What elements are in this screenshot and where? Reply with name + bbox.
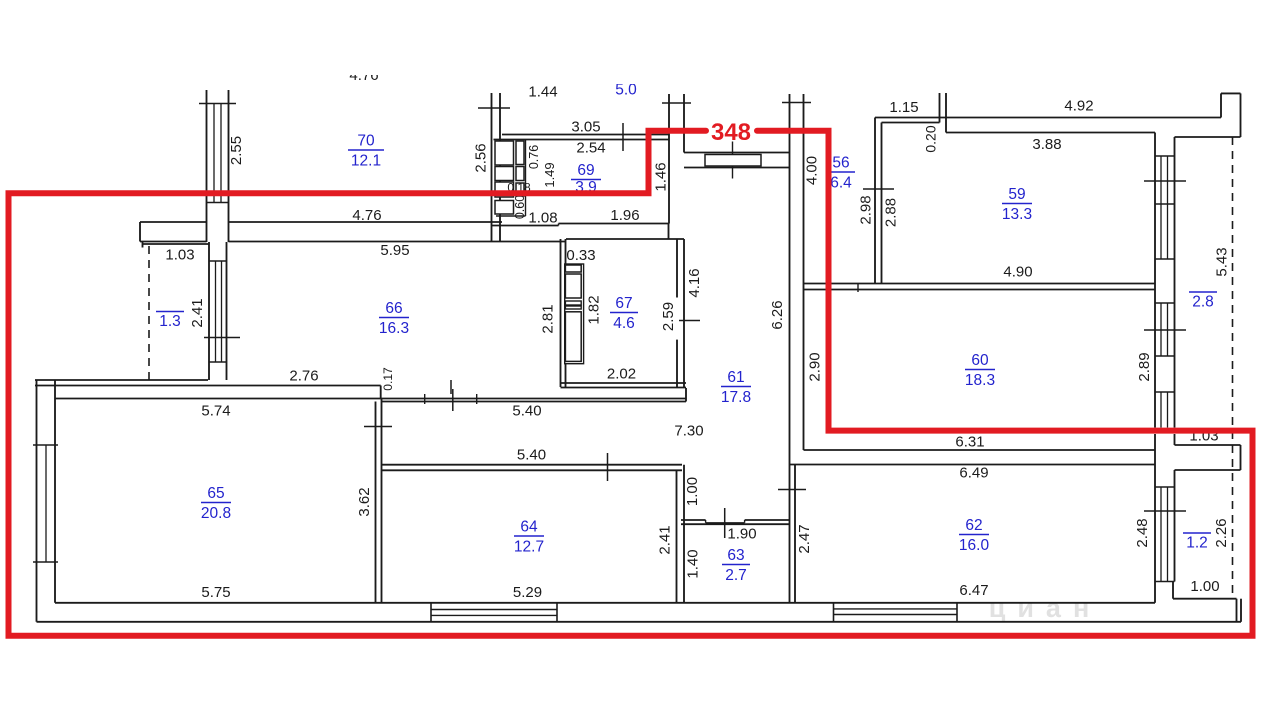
interior bottom line [55, 602, 1155, 604]
window tick bottom [209, 361, 227, 363]
shaft box [495, 141, 514, 165]
1.3 window wall inner [226, 242, 228, 380]
svg-text:3.62: 3.62 [356, 487, 373, 516]
wall 59/60 bottom line [804, 289, 1156, 291]
svg-text:циан: циан [989, 593, 1102, 623]
svg-text:60: 60 [971, 352, 989, 369]
red outline flat 348 [9, 131, 1253, 636]
svg-text:65: 65 [207, 485, 224, 502]
ww inner [1174, 487, 1176, 582]
wall 59/60 top line [804, 283, 1156, 285]
svg-text:2.41: 2.41 [189, 298, 206, 327]
step [558, 224, 560, 226]
pier top [1155, 258, 1175, 260]
svg-text:2.47: 2.47 [796, 524, 813, 553]
window wall inner [1174, 137, 1176, 259]
box edge [956, 603, 958, 622]
bump right [1240, 445, 1242, 470]
door jamb [705, 520, 707, 523]
pane [1167, 303, 1169, 356]
tick [478, 107, 510, 109]
window division tick [1155, 203, 1175, 205]
ww inner [1174, 470, 1176, 487]
ww outer [1154, 392, 1156, 428]
bump top [1175, 444, 1241, 446]
door jamb [744, 520, 746, 523]
wall 66/67 right [565, 239, 567, 387]
svg-text:4.92: 4.92 [1064, 98, 1093, 115]
svg-text:2.90: 2.90 [807, 352, 824, 381]
1.3 bottom wall top edge [35, 379, 208, 381]
right exterior lower outer [1236, 599, 1238, 622]
svg-text:2.56: 2.56 [473, 143, 490, 172]
66 interior bottom [35, 385, 381, 387]
svg-text:5.43: 5.43 [1214, 247, 1231, 276]
svg-text:6.4: 6.4 [830, 175, 852, 192]
tick [424, 394, 426, 404]
corner bump left [1220, 93, 1222, 117]
window pane [45, 445, 47, 562]
window tick [33, 444, 58, 446]
svg-text:1.15: 1.15 [889, 99, 918, 116]
svg-text:2.26: 2.26 [1213, 518, 1230, 547]
window tick [33, 561, 58, 563]
balcony 2.8 top wall [1175, 136, 1241, 138]
62 left inner [794, 465, 796, 604]
box line [834, 614, 958, 616]
svg-text:69: 69 [577, 162, 594, 179]
svg-text:3.88: 3.88 [1032, 136, 1061, 153]
shaft box [565, 265, 581, 272]
svg-text:2.48: 2.48 [1134, 518, 1151, 547]
svg-text:1.00: 1.00 [1190, 578, 1219, 595]
balcony label 2.8 [1189, 291, 1217, 293]
svg-text:2.81: 2.81 [540, 304, 557, 333]
svg-text:56: 56 [832, 155, 849, 172]
balcony label 1.2 [1183, 532, 1211, 534]
shaft box [495, 167, 514, 181]
wall 70/69 right line [499, 93, 501, 241]
svg-text:1.2: 1.2 [1186, 535, 1208, 552]
pier [1172, 582, 1174, 599]
pier left [1154, 356, 1156, 392]
bump bottom [1175, 469, 1241, 471]
hall/63 wall line1 right [745, 519, 790, 521]
svg-text:0.33: 0.33 [566, 247, 595, 264]
svg-text:6.31: 6.31 [955, 434, 984, 451]
svg-text:5.75: 5.75 [201, 584, 230, 601]
svg-text:5.0: 5.0 [615, 82, 637, 99]
balcony 1.2 interior bottom [1173, 598, 1237, 600]
box edge [833, 603, 835, 622]
svg-text:17.8: 17.8 [721, 389, 751, 406]
60 interior bottom [804, 449, 1156, 451]
window pane [221, 261, 223, 362]
small tick [857, 284, 859, 293]
wall 70/69 left line [491, 93, 493, 241]
shaft box [516, 183, 524, 196]
svg-text:348: 348 [711, 119, 751, 146]
tick [1155, 355, 1175, 357]
svg-text:59: 59 [1008, 186, 1025, 203]
1.3 window wall outer [208, 242, 210, 380]
svg-text:70: 70 [357, 133, 375, 150]
crop cover top [0, 0, 1280, 75]
69 top line2 [494, 139, 670, 141]
window pane [215, 261, 217, 362]
shaft box [565, 312, 581, 362]
balcony 1.3 top wall [143, 243, 210, 245]
svg-text:0.20: 0.20 [923, 125, 939, 152]
svg-text:1.82: 1.82 [586, 295, 603, 324]
ww outer [1154, 434, 1156, 487]
svg-text:1.46: 1.46 [653, 162, 670, 191]
door threshold [705, 155, 761, 167]
window wall outer [1154, 133, 1156, 260]
balcony 1.3 dashed boundary [148, 246, 150, 380]
pane [1167, 392, 1169, 428]
svg-text:12.7: 12.7 [514, 539, 544, 556]
wall 56/59 right [881, 123, 883, 284]
tick 2.47 [778, 489, 806, 491]
svg-text:7.30: 7.30 [674, 423, 703, 440]
ww outer [1154, 487, 1156, 582]
wall: top-left exterior window pier outer [206, 90, 208, 242]
svg-text:2.02: 2.02 [607, 366, 636, 383]
tick at 66 bottom [450, 380, 452, 394]
svg-text:12.1: 12.1 [351, 153, 381, 170]
pane [1167, 156, 1169, 259]
band top right [559, 223, 669, 225]
tick 5.43 div [1144, 180, 1186, 182]
svg-text:4.90: 4.90 [1003, 264, 1032, 281]
wall 66/67 left [560, 239, 562, 387]
svg-text:20.8: 20.8 [201, 505, 231, 522]
svg-text:2.88: 2.88 [883, 198, 900, 227]
shaft box [495, 182, 514, 197]
tick [662, 102, 691, 104]
wall 69 right inner [683, 94, 685, 153]
tick [782, 102, 811, 104]
wall 67 right outer [683, 239, 685, 387]
tick 4.16/2.59 [679, 320, 700, 322]
ww inner [1174, 303, 1176, 356]
64 top line2 [382, 469, 683, 471]
tick [1155, 155, 1175, 157]
svg-text:4.16: 4.16 [686, 268, 703, 297]
window top tick [199, 103, 236, 105]
shaft container 67 [565, 264, 584, 364]
svg-text:2.8: 2.8 [1192, 294, 1214, 311]
tick 2.48/2.26 [1144, 510, 1186, 512]
svg-text:18.3: 18.3 [965, 372, 995, 389]
wall 69 right outer [668, 94, 670, 224]
64 top line1 [382, 464, 683, 466]
tick long [452, 389, 454, 411]
box edge [556, 603, 558, 622]
window tick top [209, 260, 227, 262]
svg-text:1.90: 1.90 [727, 526, 756, 543]
svg-text:1.40: 1.40 [685, 549, 702, 578]
pane [1160, 392, 1162, 428]
box line [431, 614, 557, 616]
hall wall line2 [684, 167, 790, 169]
svg-text:64: 64 [520, 519, 538, 536]
shaft container right [525, 140, 527, 217]
long corridor wall east line [803, 94, 805, 450]
ww inner [1174, 392, 1176, 428]
corner bump top [1221, 92, 1241, 94]
box line [834, 608, 958, 610]
shaft container bottom [496, 215, 526, 217]
svg-text:2.7: 2.7 [725, 567, 747, 584]
tick [1155, 486, 1175, 488]
tick 5.40/6.49 [607, 453, 609, 481]
tick [1155, 581, 1175, 583]
svg-text:1.03: 1.03 [165, 247, 194, 264]
svg-text:2.59: 2.59 [660, 302, 677, 331]
wall: top-left window pier inner [228, 90, 230, 242]
door centre line [732, 142, 734, 179]
band bottom left b [229, 241, 567, 243]
wall 65/64 right [381, 399, 383, 604]
wall 65/64 left [375, 402, 377, 604]
window jamb [939, 93, 941, 123]
box edge [430, 603, 432, 622]
shaft box [565, 301, 581, 305]
shaft box [516, 141, 524, 165]
step down [380, 386, 382, 399]
exterior bottom line [37, 621, 1242, 623]
pier bottom [1155, 391, 1175, 393]
pier left [1154, 259, 1156, 303]
shaft box [565, 274, 581, 298]
svg-text:6.47: 6.47 [959, 582, 988, 599]
tick [476, 394, 478, 404]
62 interior top [790, 464, 1156, 466]
svg-text:6.49: 6.49 [959, 465, 988, 482]
svg-text:6.26: 6.26 [769, 300, 786, 329]
wall 67 right inner lower [676, 340, 678, 387]
shaft box [495, 201, 514, 215]
top wall long line [875, 117, 1221, 119]
box line [431, 609, 557, 611]
hall wall line1 [684, 152, 790, 154]
64 right inner [683, 465, 685, 603]
pane [1167, 487, 1169, 582]
svg-text:0.76: 0.76 [527, 145, 541, 169]
hall/63 wall line1 left [681, 519, 706, 521]
balcony 2.8/1.2 dashed boundary [1232, 137, 1234, 596]
window bottom tick [207, 202, 229, 204]
door sill [706, 522, 745, 524]
pier right [1174, 356, 1176, 392]
svg-text:1.49: 1.49 [542, 162, 557, 187]
svg-text:0.17: 0.17 [381, 367, 395, 391]
67 bottom lower edge [561, 387, 687, 389]
svg-text:5.40: 5.40 [512, 403, 541, 420]
window pane line [213, 104, 215, 203]
shaft box [516, 167, 524, 181]
svg-text:1.00: 1.00 [684, 477, 701, 506]
band top left [140, 221, 207, 223]
wall 67 right inner upper [676, 239, 678, 298]
balcony label 1.3 [156, 311, 184, 313]
svg-text:5.74: 5.74 [201, 403, 230, 420]
long corridor wall west line [789, 94, 791, 604]
svg-text:5.95: 5.95 [380, 242, 409, 259]
svg-text:66: 66 [385, 300, 402, 317]
69 top line1 [502, 134, 669, 136]
svg-text:1.08: 1.08 [528, 210, 557, 227]
band bottom left [140, 241, 207, 243]
65 left inner [54, 380, 56, 603]
band top left b [229, 221, 503, 223]
64 right outer [676, 470, 678, 603]
65 left outer [36, 380, 38, 622]
window jamb [945, 93, 947, 133]
pier bottom [1155, 302, 1175, 304]
svg-text:67: 67 [615, 295, 632, 312]
svg-text:2.41: 2.41 [657, 525, 674, 554]
svg-text:5.40: 5.40 [517, 447, 546, 464]
pier right [1174, 259, 1176, 303]
svg-text:2.89: 2.89 [1136, 352, 1153, 381]
tick 2.41/2.89 [1144, 329, 1186, 331]
pier [1154, 582, 1156, 603]
band top step [492, 225, 559, 227]
window mid tick [204, 337, 240, 339]
svg-text:4.76: 4.76 [352, 207, 381, 224]
stub under 67 [685, 388, 687, 402]
svg-text:3.05: 3.05 [571, 119, 600, 136]
tick 1.90 [724, 508, 726, 538]
svg-text:2.54: 2.54 [576, 140, 605, 157]
ww inner [1174, 434, 1176, 445]
right exterior top [1240, 93, 1242, 137]
band inner cap [668, 224, 670, 240]
svg-text:4.00: 4.00 [804, 156, 821, 185]
svg-text:5.29: 5.29 [513, 584, 542, 601]
pane [1160, 303, 1162, 356]
pane [1160, 487, 1162, 582]
svg-text:0.60: 0.60 [513, 195, 527, 219]
svg-text:13.3: 13.3 [1002, 206, 1032, 223]
svg-text:1.96: 1.96 [610, 207, 639, 224]
svg-text:16.0: 16.0 [959, 537, 990, 554]
band bottom right [566, 238, 684, 240]
tick 2.98/2.88 [863, 188, 894, 190]
tick 3.05/2.54 [622, 123, 624, 151]
ww outer [1154, 303, 1156, 356]
tick 3.62 [364, 426, 392, 428]
window pane line [220, 104, 222, 203]
svg-text:1.3: 1.3 [159, 313, 181, 330]
right exterior lower edge [1240, 599, 1242, 622]
svg-text:61: 61 [727, 369, 744, 386]
band left cap [139, 222, 141, 242]
balcony 1.3 top-left stub [142, 242, 144, 248]
room 59 interior top [946, 132, 1155, 134]
67 bottom top edge [561, 382, 687, 384]
svg-text:4.6: 4.6 [613, 315, 635, 332]
corridor top second line [382, 401, 687, 403]
svg-text:63: 63 [727, 547, 744, 564]
svg-text:16.3: 16.3 [379, 320, 409, 337]
65/corridor interior top [55, 398, 686, 400]
svg-text:2.76: 2.76 [289, 368, 318, 385]
svg-text:2.98: 2.98 [858, 195, 875, 224]
hall/63 wall line2 [681, 523, 790, 525]
svg-text:62: 62 [965, 517, 982, 534]
shaft box [565, 306, 581, 309]
wall 56/59 left [874, 118, 876, 284]
pane [1160, 156, 1162, 259]
svg-text:2.55: 2.55 [228, 136, 245, 165]
top wall inner 56 [882, 122, 940, 124]
